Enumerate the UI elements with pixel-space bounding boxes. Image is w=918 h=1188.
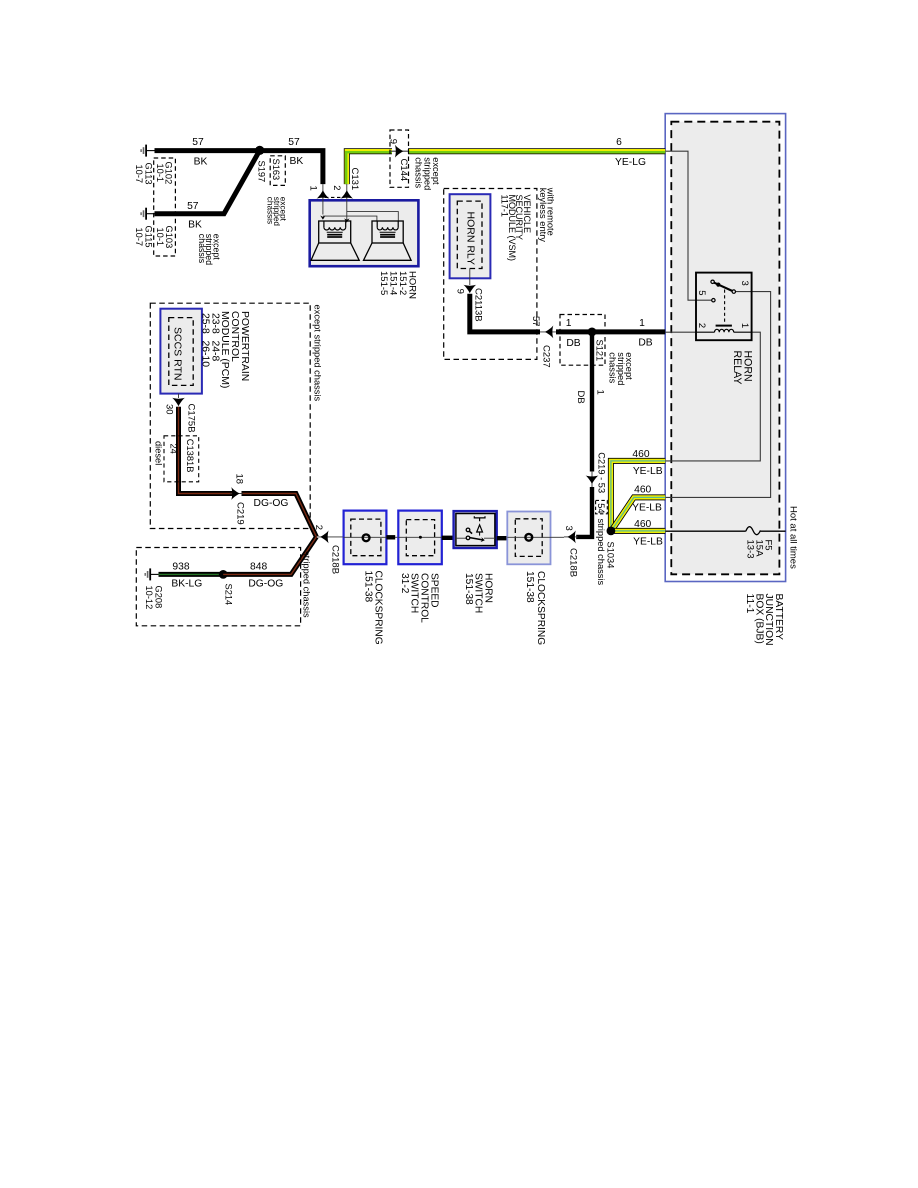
svg-text:9: 9 (388, 139, 399, 144)
svg-text:1: 1 (595, 390, 606, 395)
splice S1034 (605, 527, 615, 569)
svg-text:S163: S163 (271, 159, 281, 181)
svg-text:848: 848 (250, 561, 267, 572)
horn label (378, 271, 418, 299)
horn 2 (364, 221, 412, 260)
svg-text:57: 57 (530, 316, 541, 327)
svg-text:DB: DB (638, 337, 652, 348)
connector C2113B (454, 269, 483, 322)
svg-text:stripped chassis: stripped chassis (596, 519, 606, 586)
wire 938 BK-LG (G208 to S214) (159, 561, 224, 589)
wire 57 DB (VSM to C237) (470, 294, 541, 332)
wire DB (S121 down) (575, 334, 606, 472)
svg-text:10-7: 10-7 (134, 228, 144, 247)
wire horn feed branch (pin2 to horn2) (347, 212, 399, 221)
wire 460 YE-LB (S1034 to relay pin1) (611, 449, 665, 531)
wire 57 BK (G115 to S197) (155, 150, 260, 230)
note: stripped chassis (S1034) (596, 519, 606, 586)
ground box G102 G103 (154, 158, 176, 256)
note: except stripped chassis (G103) (197, 234, 222, 265)
splice S214 (219, 570, 234, 605)
pin 54 (dashed) (596, 500, 608, 513)
svg-text:C218B: C218B (330, 545, 341, 574)
wire 57 BK (S197 to horn) (260, 137, 323, 184)
horn relay (696, 273, 754, 385)
wire (clockspring right to C218B) (551, 536, 565, 538)
svg-text:5: 5 (696, 290, 707, 295)
note: with remote keyless entry (538, 187, 556, 243)
svg-text:RELAY: RELAY (731, 351, 743, 385)
svg-text:10-1: 10-1 (155, 164, 165, 183)
svg-text:DB: DB (575, 391, 586, 404)
svg-text:18: 18 (233, 474, 244, 485)
note: stripped chassis (302, 551, 312, 618)
svg-text:S214: S214 (223, 584, 233, 606)
ground G115 (134, 208, 155, 248)
svg-text:stripped chassis: stripped chassis (302, 551, 312, 618)
svg-text:C2113B: C2113B (472, 288, 483, 322)
svg-text:1: 1 (566, 318, 572, 329)
svg-text:CLOCKSPRING: CLOCKSPRING (535, 571, 546, 645)
svg-text:chassis: chassis (197, 234, 207, 264)
fuse F5 15A 13-3 (665, 527, 785, 559)
battery junction box (BJB) outline (665, 114, 785, 582)
svg-text:G115: G115 (144, 226, 154, 248)
svg-text:57: 57 (288, 137, 300, 148)
connector C218B (junction pin 2) (313, 525, 344, 574)
svg-text:30: 30 (164, 404, 175, 415)
svg-text:HORN RLY: HORN RLY (465, 212, 477, 265)
svg-text:460: 460 (634, 519, 651, 530)
wire DG-OG (PCM to C219) (179, 407, 317, 537)
note: except stripped chassis (C144) (413, 157, 441, 190)
svg-text:2: 2 (696, 323, 707, 328)
powertrain control module (PCM) (150, 303, 310, 528)
horn assembly box (310, 200, 419, 266)
wire horn ground branch (pin1 to horn2) (323, 216, 377, 221)
horn 1 (311, 221, 359, 260)
svg-text:DB: DB (566, 338, 580, 349)
svg-text:G113: G113 (144, 163, 154, 185)
svg-text:938: 938 (172, 561, 189, 572)
connector C219 pin 18 (230, 474, 245, 525)
wire 848 DG-OG (S214 to C218B) (223, 537, 316, 590)
svg-text:BK: BK (188, 220, 202, 231)
svg-text:6: 6 (616, 137, 622, 148)
svg-text:S121: S121 (595, 340, 605, 362)
svg-text:keyless entry: keyless entry (538, 188, 548, 243)
ground G208 (144, 568, 164, 609)
svg-text:C219 - 53: C219 - 53 (597, 452, 607, 493)
splice S163 (dashed) (270, 156, 285, 186)
svg-text:54: 54 (596, 503, 606, 513)
svg-text:31-2: 31-2 (399, 573, 410, 594)
svg-text:151-5: 151-5 (378, 271, 389, 295)
svg-text:1: 1 (308, 186, 319, 191)
svg-text:DG-OG: DG-OG (248, 579, 283, 590)
svg-text:C1381B: C1381B (185, 439, 195, 473)
svg-text:SCCS RTN: SCCS RTN (172, 327, 184, 380)
svg-text:57: 57 (187, 201, 199, 212)
connector C175B (164, 394, 197, 433)
svg-text:YE-LB: YE-LB (633, 466, 663, 477)
wire (horn switch to clockspring right) (497, 536, 508, 540)
svg-text:C175B: C175B (186, 404, 197, 433)
connector C219 pin 53 (586, 452, 607, 493)
svg-text:YE-LG: YE-LG (615, 157, 646, 168)
svg-text:117-1: 117-1 (499, 195, 509, 217)
splice S197 (255, 146, 267, 182)
svg-text:except stripped chassis: except stripped chassis (313, 305, 323, 402)
note: except stripped chassis (S121) (608, 352, 635, 385)
svg-text:diesel: diesel (154, 441, 164, 465)
connector C1381B (dashed) (164, 436, 199, 482)
connector C237 (540, 326, 557, 368)
svg-text:25-8: 25-8 (200, 313, 211, 334)
splice S121 (560, 315, 605, 366)
svg-text:57: 57 (192, 137, 204, 148)
speed control switch (398, 511, 442, 624)
wire 57 BK (G113 to S197) (155, 137, 260, 167)
clockspring (left) (344, 511, 387, 645)
svg-text:2: 2 (313, 525, 324, 530)
note: diesel (154, 441, 164, 465)
svg-text:13-3: 13-3 (745, 540, 756, 559)
wire relay pin 3 to YE-LB 460 (middle) (665, 292, 770, 498)
svg-text:BK-LG: BK-LG (171, 579, 202, 590)
net label: Hot at all times (788, 506, 799, 569)
svg-text:26-10: 26-10 (200, 341, 211, 368)
svg-text:C219: C219 (234, 502, 245, 525)
svg-text:2: 2 (331, 185, 342, 190)
wire relay pin 2 stub (665, 331, 696, 333)
clockspring (right) (507, 512, 550, 646)
wire DB (C219 to C218B) (576, 487, 592, 537)
wire 6 YE-LG (C131 to BJB) (346, 137, 665, 184)
svg-text:chassis: chassis (413, 157, 423, 188)
stripped chassis box (136, 548, 300, 626)
wire 1 DB (C237 to S121) (556, 318, 592, 349)
wire (clockspring to speed control switch) (386, 536, 398, 538)
connector C131 pin 1 (308, 184, 330, 220)
svg-text:3: 3 (739, 281, 750, 286)
wire 460 YE-LB (S1034 to relay pin3) (612, 485, 665, 530)
vehicle security module (VSM) (444, 189, 537, 360)
svg-text:G208: G208 (153, 586, 163, 609)
svg-text:BK: BK (290, 156, 304, 167)
horn switch (454, 511, 497, 613)
svg-text:3: 3 (563, 526, 574, 531)
ground G113 (134, 145, 155, 185)
note: except stripped chassis (PCM) (313, 305, 323, 402)
connector C144 (388, 130, 409, 187)
svg-text:151-38: 151-38 (362, 571, 373, 603)
wire BJB feed to relay pin 5 (665, 151, 711, 300)
svg-text:DG-OG: DG-OG (254, 498, 289, 509)
battery junction box label (744, 594, 784, 646)
note: except stripped chassis (S163) (266, 197, 288, 227)
svg-text:10-7: 10-7 (134, 165, 144, 184)
wire (speed control switch to horn switch) (442, 536, 454, 540)
svg-text:C218B: C218B (567, 548, 578, 577)
svg-text:C131: C131 (349, 168, 360, 191)
svg-text:chassis: chassis (266, 197, 275, 224)
svg-text:S197: S197 (257, 161, 267, 183)
svg-text:YE-LB: YE-LB (633, 536, 663, 547)
svg-text:151-38: 151-38 (524, 571, 535, 603)
svg-text:11-1: 11-1 (744, 594, 755, 614)
svg-text:C144: C144 (398, 159, 409, 182)
wire relay pin 1 to YE-LB feed 460 (top) (665, 332, 760, 461)
svg-text:YE-LB: YE-LB (632, 502, 662, 513)
svg-text:Hot at all times: Hot at all times (788, 506, 799, 569)
svg-text:10-12: 10-12 (144, 586, 154, 610)
svg-text:BK: BK (194, 156, 208, 167)
svg-text:9: 9 (454, 289, 465, 294)
svg-text:24: 24 (169, 444, 179, 454)
svg-text:1: 1 (639, 318, 645, 329)
svg-text:S1034: S1034 (605, 542, 615, 569)
svg-text:460: 460 (632, 449, 649, 460)
wire 460 YE-LB (S1034 to fuse) (611, 519, 665, 547)
svg-text:460: 460 (634, 485, 651, 496)
wire 1 DB (S121 to BJB) (592, 318, 665, 349)
svg-text:10-1: 10-1 (155, 228, 165, 247)
svg-text:chassis: chassis (608, 352, 618, 383)
connector C131 pin 2 (325, 168, 360, 223)
svg-text:C237: C237 (541, 345, 552, 368)
svg-text:151-38: 151-38 (463, 573, 474, 605)
svg-text:1: 1 (739, 323, 750, 328)
connector C218B (to clockspring right) (563, 526, 578, 578)
